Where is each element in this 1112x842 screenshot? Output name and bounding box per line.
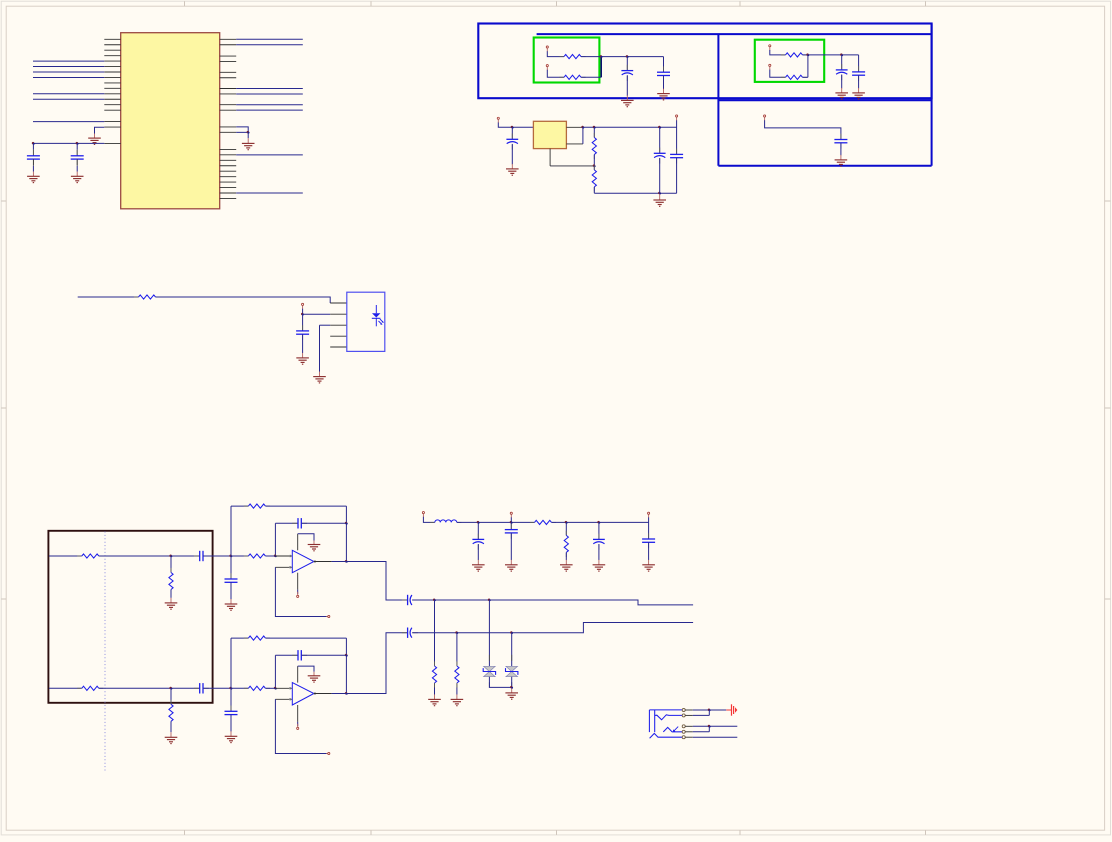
wire bbox=[265, 637, 346, 639]
wire bbox=[593, 187, 595, 193]
ground bbox=[835, 155, 848, 166]
input shunt capacitor bbox=[225, 706, 238, 721]
ground bbox=[225, 731, 238, 742]
ground bbox=[560, 560, 573, 571]
wire bbox=[319, 325, 321, 372]
blue block outline A bbox=[478, 24, 931, 99]
ground bbox=[505, 560, 518, 571]
wire bbox=[230, 715, 232, 732]
port P11 bbox=[648, 512, 650, 518]
junction bbox=[658, 192, 661, 195]
wire bbox=[33, 121, 104, 123]
wire bbox=[302, 334, 304, 353]
coupling capacitor bbox=[402, 628, 418, 638]
blue block divider vertical bbox=[717, 34, 719, 166]
junction bbox=[274, 687, 277, 690]
wire bbox=[456, 662, 458, 667]
wire bbox=[412, 600, 693, 605]
wire bbox=[565, 552, 567, 560]
ground bbox=[657, 89, 670, 100]
feedback resistor bbox=[244, 504, 270, 508]
wire bbox=[320, 324, 331, 326]
wire bbox=[76, 159, 78, 166]
wire bbox=[477, 522, 479, 539]
wire bbox=[858, 75, 860, 88]
wire bbox=[434, 600, 436, 662]
junction bbox=[511, 126, 514, 129]
wire bbox=[858, 55, 860, 72]
green highlight box 1 bbox=[534, 38, 600, 83]
wire bbox=[511, 127, 513, 139]
wire bbox=[170, 688, 172, 704]
TVS diode D2 bbox=[506, 655, 518, 688]
resistor bbox=[169, 568, 173, 594]
wire bbox=[265, 555, 275, 557]
wire bbox=[32, 166, 34, 172]
op-amp V+ pin bbox=[297, 666, 299, 683]
wire bbox=[803, 76, 808, 78]
wire bbox=[693, 709, 727, 711]
U3 pin 2 bbox=[330, 313, 347, 315]
LED inside U3 bbox=[372, 305, 384, 326]
wire bbox=[648, 542, 650, 560]
op-amp output pin bbox=[314, 693, 332, 695]
resistor R2 bbox=[559, 75, 585, 79]
blue block line B top bbox=[537, 33, 932, 35]
port (V- supply) bbox=[297, 724, 299, 730]
ground bbox=[472, 560, 485, 571]
wire bbox=[332, 693, 347, 695]
port P6 bbox=[497, 117, 499, 123]
junction bbox=[433, 599, 436, 602]
wire bbox=[765, 120, 841, 139]
junction bbox=[455, 631, 458, 634]
wire bbox=[236, 88, 303, 90]
wire bbox=[49, 555, 82, 557]
junction bbox=[510, 686, 513, 689]
ground bbox=[593, 560, 606, 571]
port P2 bbox=[546, 65, 548, 71]
U2 output pin bbox=[566, 126, 583, 128]
op-amp - input pin bbox=[275, 698, 292, 700]
wire bbox=[236, 38, 303, 40]
op-amp V+ pin bbox=[297, 534, 299, 551]
wire bbox=[236, 131, 248, 133]
wire bbox=[598, 544, 600, 560]
junction bbox=[488, 599, 491, 602]
junction bbox=[229, 555, 232, 558]
junction bbox=[345, 654, 348, 657]
ground bbox=[852, 88, 865, 99]
op-amp output pin bbox=[314, 561, 332, 563]
J1 switch arrow bbox=[673, 727, 679, 733]
op-amp + input pin bbox=[275, 687, 292, 689]
wire bbox=[412, 623, 693, 633]
resistor bbox=[77, 686, 103, 690]
wire bbox=[600, 57, 602, 78]
ground bbox=[165, 732, 178, 743]
U1 left pin (power) bbox=[104, 142, 120, 144]
dotted divider bbox=[104, 532, 106, 772]
ground bbox=[642, 560, 655, 571]
pin dots bbox=[289, 687, 315, 700]
wire bbox=[298, 666, 314, 672]
wire bbox=[456, 683, 458, 688]
wire bbox=[489, 677, 511, 688]
wire bbox=[302, 654, 347, 656]
wire bbox=[770, 70, 786, 78]
blue block B/C shared edge bbox=[718, 99, 931, 101]
wire bbox=[33, 60, 104, 62]
junction bbox=[345, 522, 348, 525]
J1 ring contact bbox=[663, 727, 682, 732]
junction bbox=[169, 555, 172, 558]
wire bbox=[236, 192, 303, 194]
capacitor bbox=[194, 683, 209, 693]
wire bbox=[247, 132, 249, 138]
capacitor C7 bbox=[834, 134, 847, 149]
green highlight box 2 bbox=[755, 40, 824, 82]
resistor R5 bbox=[592, 133, 596, 159]
wire bbox=[648, 522, 650, 539]
wire bbox=[203, 555, 231, 557]
wire bbox=[693, 714, 710, 716]
wire bbox=[231, 555, 248, 557]
op-amp V- pin bbox=[297, 573, 299, 590]
input resistor bbox=[244, 554, 270, 558]
wire bbox=[33, 93, 104, 95]
junction bbox=[626, 55, 629, 58]
power symbol bbox=[726, 704, 737, 715]
wire bbox=[676, 120, 678, 154]
junction bbox=[76, 142, 79, 145]
wire bbox=[76, 166, 78, 172]
wire bbox=[302, 314, 304, 331]
wire bbox=[708, 710, 710, 715]
wire bbox=[807, 55, 809, 77]
wire bbox=[693, 731, 710, 733]
wire bbox=[550, 165, 594, 167]
wire bbox=[552, 521, 649, 523]
ground bbox=[296, 353, 309, 364]
op-amp triangle bbox=[292, 683, 314, 705]
U1 right pins bbox=[220, 39, 237, 198]
wire bbox=[434, 688, 436, 695]
load resistor bbox=[432, 661, 436, 687]
wire bbox=[510, 533, 512, 560]
wire bbox=[841, 75, 843, 89]
wire bbox=[274, 523, 276, 556]
wire bbox=[33, 66, 104, 68]
port P7 bbox=[676, 115, 678, 121]
op-amp V- pin bbox=[297, 705, 299, 722]
ground bbox=[27, 172, 40, 183]
wire bbox=[230, 582, 232, 599]
resistor R3 bbox=[781, 53, 807, 57]
wire bbox=[32, 143, 34, 149]
port (V- supply) bbox=[297, 592, 299, 598]
wire bbox=[95, 127, 105, 133]
wire bbox=[346, 633, 407, 694]
inductor L1 bbox=[430, 520, 461, 523]
polarized capacitor bbox=[472, 534, 484, 550]
wire bbox=[231, 505, 248, 507]
wire bbox=[598, 522, 600, 539]
wire bbox=[332, 561, 347, 563]
port P4 bbox=[769, 64, 771, 70]
wire bbox=[840, 143, 842, 156]
port P10 bbox=[510, 512, 512, 518]
wire bbox=[265, 687, 275, 689]
wire bbox=[33, 76, 104, 78]
input resistor bbox=[244, 686, 270, 690]
resistor R1 bbox=[559, 55, 585, 59]
wire bbox=[274, 655, 276, 688]
junction bbox=[477, 521, 480, 524]
wire bbox=[170, 556, 172, 573]
capacitor C2 bbox=[71, 150, 84, 165]
ground bbox=[506, 164, 519, 175]
wire bbox=[230, 556, 232, 579]
polarized capacitor C8 bbox=[506, 134, 518, 150]
regulator U2 bbox=[533, 121, 566, 148]
junction bbox=[597, 521, 600, 524]
wire bbox=[99, 687, 200, 689]
wire bbox=[236, 109, 303, 111]
port (inv input) bbox=[326, 615, 330, 617]
wire bbox=[297, 722, 299, 726]
resistor R8 bbox=[530, 520, 556, 524]
wire bbox=[803, 54, 859, 56]
U3 pin 5 bbox=[330, 346, 347, 348]
J1 pins bbox=[685, 710, 693, 737]
polarized capacitor C3 bbox=[621, 65, 633, 81]
wire bbox=[33, 98, 104, 100]
wire bbox=[99, 555, 200, 557]
junction bbox=[345, 560, 348, 563]
port P5 bbox=[764, 115, 766, 121]
pin dots bbox=[289, 555, 315, 568]
capacitor C1 bbox=[27, 150, 40, 165]
wire bbox=[49, 687, 82, 689]
wire bbox=[693, 736, 738, 738]
port P3 bbox=[769, 45, 771, 51]
junction bbox=[581, 126, 584, 129]
wire bbox=[648, 517, 650, 522]
wire bbox=[593, 155, 595, 166]
U1 left pins bbox=[104, 39, 120, 127]
ground bbox=[621, 95, 634, 106]
wire bbox=[33, 71, 104, 73]
wire bbox=[236, 127, 248, 132]
wire bbox=[302, 522, 347, 524]
U2 adjust pin bbox=[566, 143, 583, 145]
wire bbox=[275, 654, 298, 656]
ground bbox=[653, 194, 666, 206]
resistor bbox=[77, 554, 103, 558]
wire bbox=[170, 590, 172, 598]
port P8 bbox=[302, 303, 304, 309]
capacitor C4 bbox=[657, 66, 670, 81]
ground bbox=[165, 598, 178, 609]
wire bbox=[511, 633, 513, 667]
polarized capacitor C9 bbox=[654, 148, 666, 164]
U3 pin 3 bbox=[330, 324, 347, 326]
junction bbox=[169, 687, 172, 690]
wire bbox=[265, 505, 346, 507]
TVS diode D1 bbox=[483, 655, 495, 688]
wire bbox=[693, 725, 738, 727]
J1 tip switch contact bbox=[655, 715, 683, 720]
wire bbox=[581, 56, 664, 58]
polarized capacitor C5 bbox=[836, 64, 848, 80]
wire bbox=[297, 590, 299, 594]
junction bbox=[565, 521, 568, 524]
wire bbox=[275, 699, 327, 753]
wire bbox=[488, 600, 490, 666]
wire bbox=[275, 522, 298, 524]
IR receiver U3 body bbox=[347, 292, 385, 351]
ground bbox=[88, 134, 101, 145]
resistor R7 bbox=[134, 295, 160, 299]
U3 pin 1 bbox=[330, 302, 347, 304]
feedback capacitor bbox=[292, 518, 307, 528]
blue block right edge bbox=[931, 24, 933, 166]
wire bbox=[275, 567, 327, 616]
input block outline bbox=[48, 531, 212, 703]
ground bbox=[71, 172, 84, 183]
wire bbox=[663, 76, 665, 90]
J1 pin circles bbox=[682, 709, 685, 739]
wire bbox=[345, 506, 347, 561]
wire bbox=[236, 93, 303, 95]
wire bbox=[302, 309, 304, 315]
wire bbox=[434, 683, 436, 688]
junction bbox=[806, 53, 809, 56]
capacitor C10 bbox=[670, 149, 683, 164]
junction bbox=[345, 692, 348, 695]
port P9 bbox=[422, 512, 424, 518]
resistor R4 bbox=[781, 75, 807, 79]
capacitor bbox=[505, 524, 518, 539]
wire bbox=[659, 127, 661, 153]
junction bbox=[229, 687, 232, 690]
op-amp + input pin bbox=[275, 555, 292, 557]
capacitor bbox=[194, 551, 209, 561]
wire bbox=[626, 75, 628, 96]
capacitor C6 bbox=[852, 66, 865, 81]
wire bbox=[156, 297, 331, 303]
junction bbox=[600, 55, 603, 58]
junction bbox=[247, 131, 250, 134]
wire bbox=[76, 143, 78, 149]
wire bbox=[423, 517, 434, 523]
port (inv input) bbox=[326, 752, 330, 754]
junction bbox=[708, 709, 711, 712]
wire bbox=[770, 50, 786, 55]
blue block C bottom bbox=[718, 165, 931, 167]
wire bbox=[593, 127, 595, 137]
capacitor C11 bbox=[296, 325, 309, 340]
ground bbox=[428, 694, 441, 705]
wire bbox=[230, 638, 232, 688]
wire bbox=[841, 55, 843, 70]
input shunt capacitor bbox=[225, 573, 238, 588]
wire bbox=[231, 637, 248, 639]
wire bbox=[581, 76, 601, 78]
junction bbox=[593, 126, 596, 129]
wire bbox=[663, 57, 665, 73]
wire bbox=[456, 688, 458, 695]
wire bbox=[582, 127, 584, 144]
junction bbox=[32, 142, 35, 145]
wire bbox=[583, 126, 677, 128]
ground bbox=[451, 694, 464, 705]
junction bbox=[840, 53, 843, 56]
wire bbox=[434, 662, 436, 667]
junction bbox=[301, 313, 304, 316]
audio jack J1 body bbox=[649, 710, 682, 732]
coupling capacitor bbox=[402, 595, 418, 605]
wire bbox=[456, 633, 458, 662]
wire bbox=[511, 144, 513, 164]
wire bbox=[32, 150, 34, 156]
wire bbox=[236, 104, 303, 106]
wire bbox=[511, 677, 513, 688]
resistor R9 bbox=[564, 531, 568, 557]
wire bbox=[346, 562, 407, 601]
wire bbox=[33, 142, 104, 144]
wire bbox=[708, 726, 710, 732]
ground bbox=[242, 138, 255, 150]
load resistor bbox=[455, 661, 459, 687]
feedback resistor bbox=[244, 636, 270, 640]
ground bbox=[308, 672, 321, 682]
wire bbox=[510, 517, 512, 522]
wire bbox=[477, 544, 479, 560]
junction bbox=[708, 725, 711, 728]
junction bbox=[510, 631, 513, 634]
junction bbox=[274, 555, 277, 558]
wire bbox=[547, 51, 564, 56]
wire bbox=[626, 57, 628, 71]
U2 bottom pin bbox=[549, 149, 551, 166]
op-amp triangle bbox=[292, 550, 314, 572]
wire bbox=[231, 687, 248, 689]
port P1 bbox=[546, 46, 548, 52]
IC U1 bbox=[121, 33, 220, 209]
wire bbox=[76, 150, 78, 156]
wire bbox=[594, 192, 676, 194]
wire bbox=[303, 313, 331, 315]
ground bbox=[225, 599, 238, 610]
wire bbox=[32, 159, 34, 166]
feedback capacitor bbox=[292, 650, 307, 660]
junction bbox=[593, 164, 596, 167]
wire bbox=[510, 522, 512, 529]
wire bbox=[565, 522, 567, 535]
wire bbox=[547, 70, 564, 78]
J1 sleeve contact bbox=[650, 733, 683, 738]
ground bbox=[505, 688, 518, 699]
wire bbox=[345, 638, 347, 693]
wire bbox=[230, 688, 232, 711]
wire bbox=[457, 521, 535, 523]
wire bbox=[78, 296, 139, 298]
resistor R6 bbox=[592, 165, 596, 191]
wire bbox=[230, 506, 232, 556]
junction bbox=[658, 126, 661, 129]
